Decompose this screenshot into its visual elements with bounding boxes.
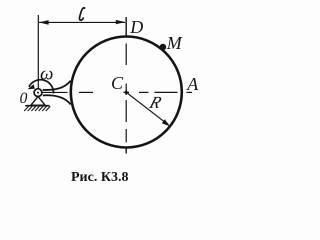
label l	[79, 8, 84, 20]
svg-text:C: C	[111, 73, 124, 93]
right arrowhead of dimension	[116, 20, 125, 24]
vertical centerline dash	[125, 129, 127, 143]
svg-text:A: A	[186, 74, 199, 94]
horizontal centerline dash	[155, 91, 178, 93]
crank bell upper curve	[43, 81, 71, 90]
svg-text:ω: ω	[40, 63, 53, 84]
omega rotation arc	[29, 80, 54, 94]
vertical centerline tick above D	[125, 17, 127, 37]
horizontal centerline dash	[79, 91, 93, 93]
horizontal centerline dash	[139, 91, 149, 93]
support triangle	[31, 97, 45, 106]
point M dot	[160, 44, 167, 51]
omega arrowhead	[28, 84, 35, 89]
vertical centerline dash	[125, 100, 127, 122]
pivot pin at O	[34, 89, 42, 97]
left arrowhead of dimension	[39, 20, 49, 25]
horizontal centerline dash right of rim	[187, 91, 193, 93]
ground hatching	[24, 106, 50, 111]
svg-text:D: D	[129, 17, 143, 37]
radius arrow R	[126, 92, 166, 123]
vertical centerline dash	[125, 84, 127, 92]
extension line from O up to dimension line	[37, 15, 39, 88]
vertical centerline tick below circle	[125, 147, 127, 154]
disk rim	[71, 37, 182, 148]
svg-text:Рис. К3.8: Рис. К3.8	[71, 170, 128, 185]
ground line	[25, 105, 49, 107]
dimension line l	[39, 21, 125, 23]
label R	[146, 92, 164, 111]
node C center junction	[124, 91, 130, 93]
horizontal centerline from pin to rim	[42, 91, 68, 93]
svg-text:M: M	[166, 33, 183, 53]
crank bell lower curve	[43, 95, 71, 104]
svg-text:0: 0	[20, 90, 28, 107]
vertical centerline dash	[125, 44, 127, 66]
